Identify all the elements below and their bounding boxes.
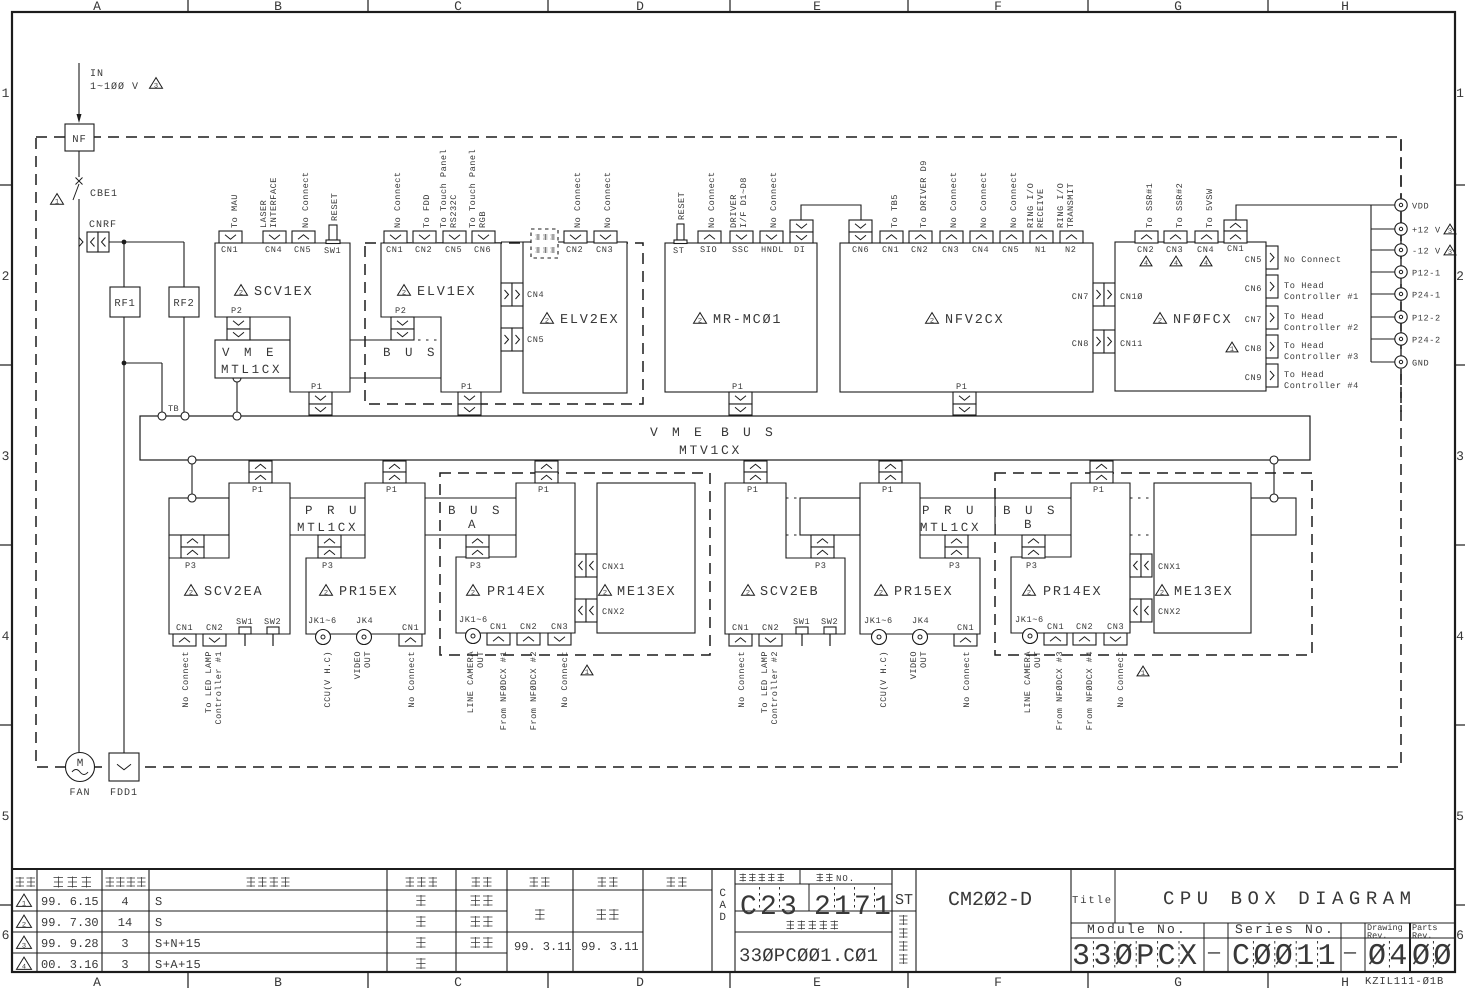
- svg-text:—: —: [1343, 942, 1357, 965]
- module/series numbers 330PCX-C0011-0400: [1072, 940, 1455, 974]
- svg-text:To Head: To Head: [1284, 370, 1324, 380]
- svg-text:No Connect: No Connect: [393, 171, 403, 228]
- svg-text:99. 6.15: 99. 6.15: [41, 895, 99, 909]
- module SCV1EX outline: [215, 243, 350, 392]
- svg-text:ELV1EX: ELV1EX: [417, 285, 476, 300]
- svg-text:ST: ST: [673, 246, 685, 256]
- svg-text:CBE1: CBE1: [90, 189, 118, 200]
- svg-text:CCU(V H.C): CCU(V H.C): [879, 651, 889, 708]
- connector CN2 (PR14EX-B): [1073, 633, 1096, 645]
- svg-text:CN3: CN3: [551, 622, 568, 632]
- svg-text:2: 2: [1456, 269, 1464, 284]
- svg-text:ME13EX: ME13EX: [1174, 585, 1233, 600]
- svg-text:3: 3: [1448, 228, 1452, 236]
- svg-text:G: G: [1174, 0, 1182, 14]
- connector CN6 (ELV1EX): [472, 231, 495, 243]
- svg-text:CN1: CN1: [386, 245, 403, 255]
- svg-text:FDD1: FDD1: [110, 788, 138, 799]
- svg-text:P1: P1: [747, 485, 759, 495]
- junction circle band (A): [188, 494, 196, 502]
- svg-text:RING I/O: RING I/O: [1026, 183, 1036, 228]
- connector CN1 (SCV2EA): [173, 634, 196, 646]
- connector CN1 (NFV2CX): [880, 231, 903, 243]
- connector P1 (PR15EX-B): [879, 461, 902, 472]
- switch SW2 (SCV2EA): [267, 627, 279, 634]
- CPU box enclosure (dashed): [36, 137, 1401, 767]
- svg-text:CN1: CN1: [221, 245, 238, 255]
- svg-text:OUT: OUT: [476, 651, 486, 668]
- svg-text:3: 3: [2, 449, 10, 464]
- module SCV2EA outline: [169, 483, 290, 634]
- svg-text:BUS: BUS: [1003, 504, 1069, 518]
- svg-text:N1: N1: [1035, 245, 1047, 255]
- svg-text:CN2: CN2: [1076, 622, 1093, 632]
- connector CN7 (NF0FCX right): [1266, 306, 1278, 329]
- PRU band segment solid edges (A): [290, 497, 365, 499]
- module PR15EX-B outline: [860, 483, 980, 634]
- module ME13EX-A outline: [597, 483, 695, 633]
- svg-text:Controller #2: Controller #2: [1284, 323, 1359, 333]
- svg-text:SCV1EX: SCV1EX: [254, 285, 313, 300]
- control number C23 2171: [740, 887, 894, 923]
- junction circle VME (A): [188, 456, 196, 464]
- svg-text:RS232C: RS232C: [449, 194, 459, 228]
- svg-text:CN3: CN3: [1166, 245, 1183, 255]
- svg-text:TB: TB: [168, 404, 179, 414]
- svg-text:JK4: JK4: [356, 616, 373, 626]
- connector CN8 (NF0FCX right): [1266, 335, 1278, 358]
- svg-text:4: 4: [1204, 260, 1208, 268]
- module PR15EX-A name: [320, 585, 333, 596]
- svg-text:HNDL: HNDL: [761, 245, 784, 255]
- module NF0FCX name: [1154, 313, 1167, 324]
- connector P3 (PR15EX-A): [318, 535, 341, 547]
- module MR-MC01 outline: [665, 243, 817, 392]
- svg-text:CN2: CN2: [762, 623, 779, 633]
- power terminal P24-2: [1371, 338, 1395, 340]
- warning triangle 4 (CN3): [1170, 256, 1182, 266]
- svg-text:CN1: CN1: [176, 623, 193, 633]
- svg-text:ELV2EX: ELV2EX: [560, 313, 619, 328]
- svg-text:CN3: CN3: [596, 245, 613, 255]
- wire RF1 to TB: [124, 362, 162, 364]
- svg-text:2: 2: [2, 269, 10, 284]
- file name header: [787, 921, 795, 930]
- svg-text:GND: GND: [1412, 359, 1429, 369]
- svg-text:2: 2: [545, 318, 549, 326]
- band segment solid edges (B): [920, 497, 1071, 499]
- connector SSC: [730, 231, 753, 243]
- svg-text:CN4: CN4: [527, 290, 544, 300]
- svg-text:No Connect: No Connect: [737, 651, 747, 708]
- breaker CBE1: [76, 178, 83, 185]
- connector P1 (SCV2EB): [744, 461, 767, 472]
- svg-text:CN4: CN4: [265, 245, 282, 255]
- connector P1 (PR14EX-B): [1090, 461, 1113, 472]
- svg-text:2171: 2171: [814, 892, 894, 923]
- wire to RF1: [123, 242, 125, 287]
- module PR14EX-A outline: [456, 483, 575, 633]
- svg-text:ST: ST: [895, 892, 913, 909]
- svg-text:CN4: CN4: [1197, 245, 1214, 255]
- module PR15EX-B name: [875, 585, 888, 596]
- connector P3 (PR14EX-A): [466, 535, 489, 547]
- svg-text:To TB5: To TB5: [890, 194, 900, 228]
- svg-text:G: G: [1174, 975, 1182, 988]
- svg-text:I/F D1~D8: I/F D1~D8: [739, 177, 749, 228]
- svg-text:VIDEO: VIDEO: [909, 651, 919, 679]
- module ELV2EX name: [541, 313, 554, 324]
- svg-text:To LED LAMP: To LED LAMP: [204, 651, 214, 713]
- connector CN5 (NF0FCX right): [1266, 246, 1278, 269]
- svg-text:CN5: CN5: [527, 335, 544, 345]
- connector CNX1 (A): [575, 554, 586, 577]
- svg-text:CN7: CN7: [1072, 292, 1089, 302]
- svg-text:P1: P1: [538, 485, 550, 495]
- svg-text:E: E: [813, 975, 821, 988]
- connector CN6 (NF0FCX right): [1266, 275, 1278, 298]
- svg-text:—: —: [1207, 942, 1221, 965]
- connector CN3 (ELV2EX): [594, 231, 617, 243]
- svg-text:CN2: CN2: [206, 623, 223, 633]
- svg-text:2: 2: [324, 590, 328, 598]
- title block grid (revision table): [12, 869, 1455, 972]
- svg-text:C23: C23: [740, 892, 800, 923]
- connector CN2 (SCV2EB): [759, 634, 782, 646]
- svg-text:CN8: CN8: [1072, 339, 1089, 349]
- wire NF to CBE1: [78, 151, 80, 177]
- svg-text:3: 3: [22, 943, 26, 951]
- connector CN3 (NFV2CX): [940, 231, 963, 243]
- svg-text:No Connect: No Connect: [1009, 171, 1019, 228]
- svg-text:LASER: LASER: [259, 200, 269, 228]
- svg-text:PRU: PRU: [305, 504, 371, 518]
- module ME13EX-B name: [1156, 585, 1169, 596]
- connector SIO: [698, 231, 721, 243]
- svg-text:33ØPCX: 33ØPCX: [1072, 940, 1200, 974]
- svg-text:JK1~6: JK1~6: [864, 616, 893, 626]
- svg-text:CN5: CN5: [1245, 255, 1262, 265]
- switch SW1 (SCV2EB): [796, 627, 808, 634]
- connector N2: [1060, 231, 1083, 243]
- motor FAN: [66, 753, 95, 782]
- svg-text:A: A: [93, 975, 101, 988]
- connector CN8 (NFV2CX-NF0FCX): [1093, 330, 1104, 353]
- connector CN1 (SCV2EB): [729, 634, 752, 646]
- connector CN4 (ELV1EX-ELV2EX): [501, 283, 512, 306]
- svg-text:SCV2EA: SCV2EA: [204, 585, 263, 600]
- module NFV2CX name: [926, 313, 939, 324]
- svg-text:VIDEO: VIDEO: [353, 651, 363, 679]
- svg-text:CN1: CN1: [957, 623, 974, 633]
- connector CN1 (ELV1EX): [384, 231, 407, 243]
- terminal TB-3: [233, 412, 241, 420]
- svg-text:1: 1: [22, 901, 26, 909]
- connector CN5 (NFV2CX): [1000, 231, 1023, 243]
- junction (RF1 branch): [122, 240, 127, 245]
- svg-text:To Touch Panel: To Touch Panel: [468, 149, 478, 228]
- svg-text:PRU: PRU: [922, 504, 988, 518]
- wire CBE1 to FAN: [78, 199, 80, 753]
- svg-text:3: 3: [1456, 449, 1464, 464]
- svg-text:To LED LAMP: To LED LAMP: [760, 651, 770, 713]
- svg-text:2: 2: [1160, 590, 1164, 598]
- svg-text:To Head: To Head: [1284, 341, 1324, 351]
- PRU MTL1CX label (B): [920, 498, 995, 535]
- svg-text:4: 4: [22, 964, 26, 972]
- svg-text:CN1Ø: CN1Ø: [1120, 292, 1143, 302]
- svg-text:Ø4: Ø4: [1368, 940, 1411, 974]
- wire CNRF to RF2: [109, 241, 184, 243]
- svg-text:NO.: NO.: [836, 874, 855, 884]
- connector CN4 (SCV1EX): [263, 231, 286, 243]
- svg-text:1~1ØØ V: 1~1ØØ V: [90, 82, 139, 93]
- module ME13EX-B outline: [1154, 483, 1251, 633]
- svg-text:B: B: [1024, 518, 1032, 532]
- svg-text:Controller #1: Controller #1: [214, 651, 224, 725]
- svg-text:To Head: To Head: [1284, 281, 1324, 291]
- svg-text:2: 2: [603, 590, 607, 598]
- title cell border: [1114, 869, 1116, 923]
- svg-text:No Connect: No Connect: [573, 171, 583, 228]
- svg-text:4: 4: [1144, 260, 1148, 268]
- module PR14EX-A name: [467, 585, 480, 596]
- svg-text:PR15EX: PR15EX: [339, 585, 398, 600]
- svg-text:No Connect: No Connect: [769, 171, 779, 228]
- svg-text:2: 2: [22, 922, 26, 930]
- MEU card enclosure (dashed): [365, 243, 643, 404]
- svg-text:RECEIVE: RECEIVE: [1036, 188, 1046, 228]
- revision table rows: [17, 894, 493, 972]
- svg-text:CN1: CN1: [490, 622, 507, 632]
- svg-text:A: A: [719, 900, 726, 912]
- svg-text:From NFØDCX #2: From NFØDCX #2: [529, 651, 539, 730]
- svg-text:SSC: SSC: [732, 245, 749, 255]
- wire MTL1CX to bus: [236, 382, 238, 412]
- svg-text:1: 1: [1230, 346, 1234, 354]
- svg-text:S+N+15: S+N+15: [155, 937, 201, 951]
- connector CN1 (SCV1EX): [219, 231, 242, 243]
- connector CN2 (NFV2CX): [909, 231, 932, 243]
- svg-text:CN2: CN2: [415, 245, 432, 255]
- power rail vertical: [1370, 205, 1372, 362]
- connector P3 (PR15EX-B): [945, 535, 968, 547]
- svg-text:No Connect: No Connect: [1116, 651, 1126, 708]
- connector CN2 (ELV2EX): [564, 231, 587, 243]
- wire DI to CN6: [801, 205, 861, 220]
- terminal TB-1: [158, 412, 166, 420]
- svg-text:1: 1: [1141, 670, 1145, 678]
- svg-text:To SSR#2: To SSR#2: [1175, 183, 1185, 228]
- connector P1 (PR15EX-A): [383, 461, 406, 472]
- svg-text:Title: Title: [1072, 895, 1113, 907]
- svg-text:6: 6: [2, 928, 10, 943]
- wire RF2 to TB: [183, 317, 185, 412]
- junction circle band (B): [1270, 494, 1278, 502]
- svg-text:PR14EX: PR14EX: [487, 585, 546, 600]
- VME MTL1CX label box: [215, 340, 290, 378]
- svg-text:3: 3: [121, 958, 128, 972]
- connector DI: [790, 220, 813, 232]
- svg-text:TRANSMIT: TRANSMIT: [1066, 183, 1076, 228]
- svg-text:To DRIVER D9: To DRIVER D9: [919, 160, 929, 228]
- junction (FDD branch): [122, 361, 127, 366]
- svg-text:1: 1: [585, 669, 589, 677]
- connector CN1 (PR15EX-B): [954, 634, 977, 646]
- svg-text:P3: P3: [815, 561, 827, 571]
- svg-text:No Connect: No Connect: [603, 171, 613, 228]
- svg-text:C: C: [454, 0, 462, 14]
- svg-text:BUS: BUS: [383, 346, 449, 360]
- svg-text:P12-2: P12-2: [1412, 314, 1441, 324]
- svg-text:2: 2: [746, 590, 750, 598]
- terminal chain line: [1400, 205, 1402, 362]
- svg-text:CNX1: CNX1: [1158, 562, 1181, 572]
- connector HNDL: [760, 231, 783, 243]
- svg-text:1: 1: [55, 199, 59, 207]
- svg-text:3: 3: [121, 937, 128, 951]
- svg-text:CN11: CN11: [1120, 339, 1143, 349]
- band stub box (B right): [1251, 498, 1296, 535]
- svg-text:No Connect: No Connect: [979, 171, 989, 228]
- band stub box (A left): [169, 498, 229, 535]
- warning triangle 1 (CN8): [1226, 342, 1238, 352]
- module NF0FCX outline: [1115, 242, 1266, 391]
- svg-text:Controller #2: Controller #2: [770, 651, 780, 725]
- svg-text:CN6: CN6: [1245, 284, 1262, 294]
- svg-text:KZIL111-Ø1B: KZIL111-Ø1B: [1365, 976, 1444, 988]
- svg-text:From NFØDCX #1: From NFØDCX #1: [499, 651, 509, 730]
- warning triangle 1 (below PR14EX-B): [1137, 666, 1149, 676]
- svg-text:2: 2: [239, 290, 243, 298]
- wire CN1 to VDD rail: [1236, 205, 1371, 220]
- svg-text:P1: P1: [386, 485, 398, 495]
- design cell (SEKKEI): [535, 909, 545, 920]
- connector P1 (PR14EX-A): [535, 461, 558, 472]
- module SCV2EB outline: [725, 483, 845, 634]
- svg-text:S+A+15: S+A+15: [155, 958, 201, 972]
- module SCV1EX name: [235, 285, 248, 296]
- band stub box (B left): [800, 498, 860, 535]
- module ELV1EX outline: [381, 243, 501, 392]
- svg-text:B: B: [274, 0, 282, 14]
- connector N1: [1030, 231, 1053, 243]
- svg-text:To SSR#1: To SSR#1: [1145, 183, 1155, 228]
- module SCV2EA name: [185, 585, 198, 596]
- wire band to VME bus (B): [1273, 460, 1275, 498]
- svg-text:To MAU: To MAU: [230, 194, 240, 228]
- switch ST (MR-MC01): [677, 224, 684, 240]
- warning triangle 3 (input): [150, 78, 163, 89]
- power terminal -12 V: [1371, 249, 1395, 251]
- svg-text:4: 4: [1174, 260, 1178, 268]
- svg-text:CNX2: CNX2: [602, 607, 625, 617]
- power terminal +12 V: [1371, 228, 1395, 230]
- svg-text:No Connect: No Connect: [1284, 255, 1342, 265]
- svg-text:P1: P1: [311, 382, 323, 392]
- svg-text:RING I/O: RING I/O: [1056, 183, 1066, 228]
- connector CN3 (PR14EX-A): [548, 633, 571, 645]
- svg-text:2: 2: [698, 318, 702, 326]
- svg-text:DRIVER: DRIVER: [729, 194, 739, 228]
- svg-text:CN1: CN1: [1047, 622, 1064, 632]
- svg-text:1: 1: [1456, 86, 1464, 101]
- svg-text:P3: P3: [1026, 561, 1038, 571]
- svg-text:2: 2: [879, 590, 883, 598]
- svg-text:CN1: CN1: [882, 245, 899, 255]
- svg-text:No Connect: No Connect: [301, 171, 311, 228]
- svg-text:P2: P2: [231, 306, 243, 316]
- svg-text:VME: VME: [222, 346, 288, 360]
- svg-text:5: 5: [2, 809, 10, 824]
- svg-text:Module No.: Module No.: [1087, 922, 1187, 937]
- svg-text:JK1~6: JK1~6: [308, 616, 337, 626]
- svg-text:CN6: CN6: [852, 245, 869, 255]
- svg-text:JK1~6: JK1~6: [459, 615, 488, 625]
- svg-text:VME: VME: [650, 425, 716, 440]
- svg-text:N2: N2: [1065, 245, 1077, 255]
- terminal MTL1CX bottom: [233, 374, 241, 382]
- svg-text:OUT: OUT: [363, 651, 373, 668]
- svg-text:2: 2: [471, 590, 475, 598]
- switch SW2 (SCV2EB): [824, 627, 836, 634]
- svg-text:2: 2: [1027, 590, 1031, 598]
- svg-text:P3: P3: [322, 561, 334, 571]
- BUS B enclosure (dashed): [995, 473, 1312, 655]
- svg-text:To Head: To Head: [1284, 312, 1324, 322]
- svg-text:SW1: SW1: [236, 617, 253, 627]
- svg-text:No Connect: No Connect: [949, 171, 959, 228]
- svg-text:Series No.: Series No.: [1235, 922, 1335, 937]
- connector CN7 (NFV2CX-NF0FCX): [1093, 283, 1104, 306]
- title block grid (right): [735, 869, 1071, 972]
- svg-text:H: H: [1341, 975, 1349, 988]
- svg-text:To FDD: To FDD: [422, 194, 432, 228]
- noise filter NF: [65, 124, 94, 151]
- connector CN6 (NFV2CX): [849, 220, 872, 232]
- power terminal P12-1: [1371, 271, 1395, 273]
- terminal TB-2: [181, 412, 189, 420]
- svg-text:NFV2CX: NFV2CX: [945, 313, 1004, 328]
- ground terminal GND: [1371, 361, 1395, 363]
- svg-text:2: 2: [189, 590, 193, 598]
- dept code header: [740, 874, 747, 882]
- connector CNX1 (B): [1130, 554, 1141, 577]
- svg-text:SCV2EB: SCV2EB: [760, 585, 819, 600]
- svg-text:A: A: [468, 518, 476, 532]
- svg-text:S: S: [155, 916, 163, 930]
- svg-text:P3: P3: [949, 561, 961, 571]
- module NFV2CX outline: [840, 243, 1093, 392]
- svg-text:CPU BOX DIAGRAM: CPU BOX DIAGRAM: [1163, 888, 1417, 910]
- svg-text:INTERFACE: INTERFACE: [269, 177, 279, 228]
- connector CN1 (PR14EX-B): [1044, 633, 1067, 645]
- construction no column: [899, 915, 908, 925]
- VME BUS MTV1CX band: [140, 416, 1310, 460]
- svg-text:2: 2: [402, 290, 406, 298]
- svg-text:+12 V: +12 V: [1412, 226, 1441, 236]
- svg-text:CM2Ø2-D: CM2Ø2-D: [948, 889, 1032, 912]
- BUS A enclosure (dashed): [440, 473, 710, 655]
- warning triangle 4 (CN4): [1200, 256, 1212, 266]
- svg-text:PR15EX: PR15EX: [894, 585, 953, 600]
- svg-text:SW1: SW1: [324, 246, 341, 256]
- svg-text:P2: P2: [395, 306, 407, 316]
- connector CN2 (ELV1EX): [413, 231, 436, 243]
- svg-text:No Connect: No Connect: [181, 651, 191, 708]
- svg-text:F: F: [994, 0, 1002, 14]
- svg-text:CN2: CN2: [911, 245, 928, 255]
